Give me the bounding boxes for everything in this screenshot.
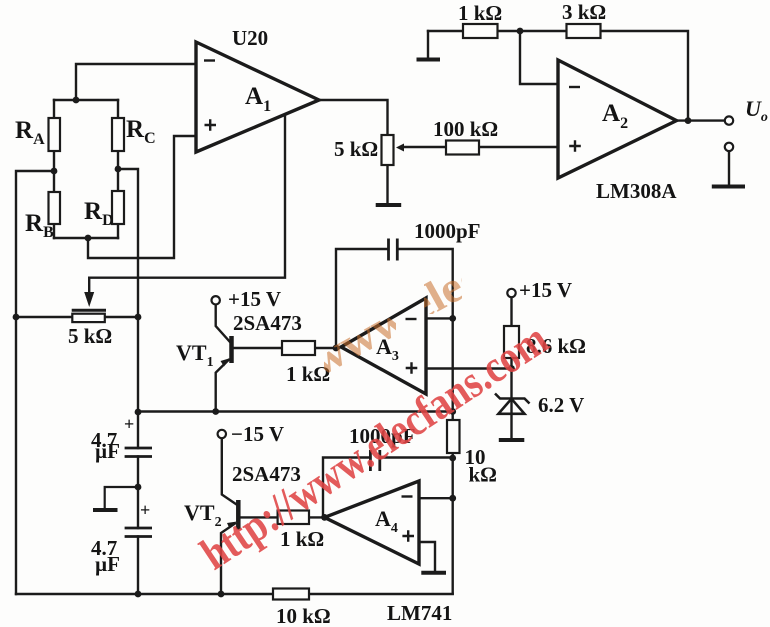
- svg-text:+15 V: +15 V: [519, 278, 572, 302]
- svg-text:100 kΩ: 100 kΩ: [433, 117, 498, 141]
- svg-text:µF: µF: [95, 552, 120, 576]
- svg-text:1 kΩ: 1 kΩ: [458, 1, 502, 25]
- svg-text:+: +: [124, 414, 134, 434]
- svg-text:1 kΩ: 1 kΩ: [286, 362, 330, 386]
- svg-text:5 kΩ: 5 kΩ: [68, 324, 112, 348]
- svg-text:3 kΩ: 3 kΩ: [562, 0, 606, 24]
- svg-text:LM741: LM741: [387, 601, 452, 625]
- svg-text:A2: A2: [602, 100, 628, 132]
- svg-text:Uo: Uo: [745, 96, 768, 125]
- svg-text:+: +: [140, 500, 150, 520]
- svg-text:2SA473: 2SA473: [233, 311, 302, 335]
- svg-text:kΩ: kΩ: [469, 463, 498, 487]
- svg-text:6.2 V: 6.2 V: [538, 393, 584, 417]
- svg-text:5 kΩ: 5 kΩ: [334, 137, 378, 161]
- svg-text:A4: A4: [375, 506, 398, 536]
- svg-text:RD: RD: [84, 198, 114, 229]
- svg-text:LM308A: LM308A: [596, 179, 677, 203]
- svg-text:VT1: VT1: [176, 340, 214, 370]
- svg-text:10 kΩ: 10 kΩ: [276, 604, 331, 627]
- svg-text:µF: µF: [95, 439, 120, 463]
- svg-text:RC: RC: [126, 116, 156, 147]
- svg-text:−15 V: −15 V: [231, 422, 284, 446]
- svg-text:A1: A1: [245, 83, 271, 115]
- svg-text:U20: U20: [232, 26, 268, 50]
- svg-text:+15 V: +15 V: [228, 287, 281, 311]
- svg-text:1000pF: 1000pF: [414, 219, 481, 243]
- svg-text:RA: RA: [15, 117, 45, 148]
